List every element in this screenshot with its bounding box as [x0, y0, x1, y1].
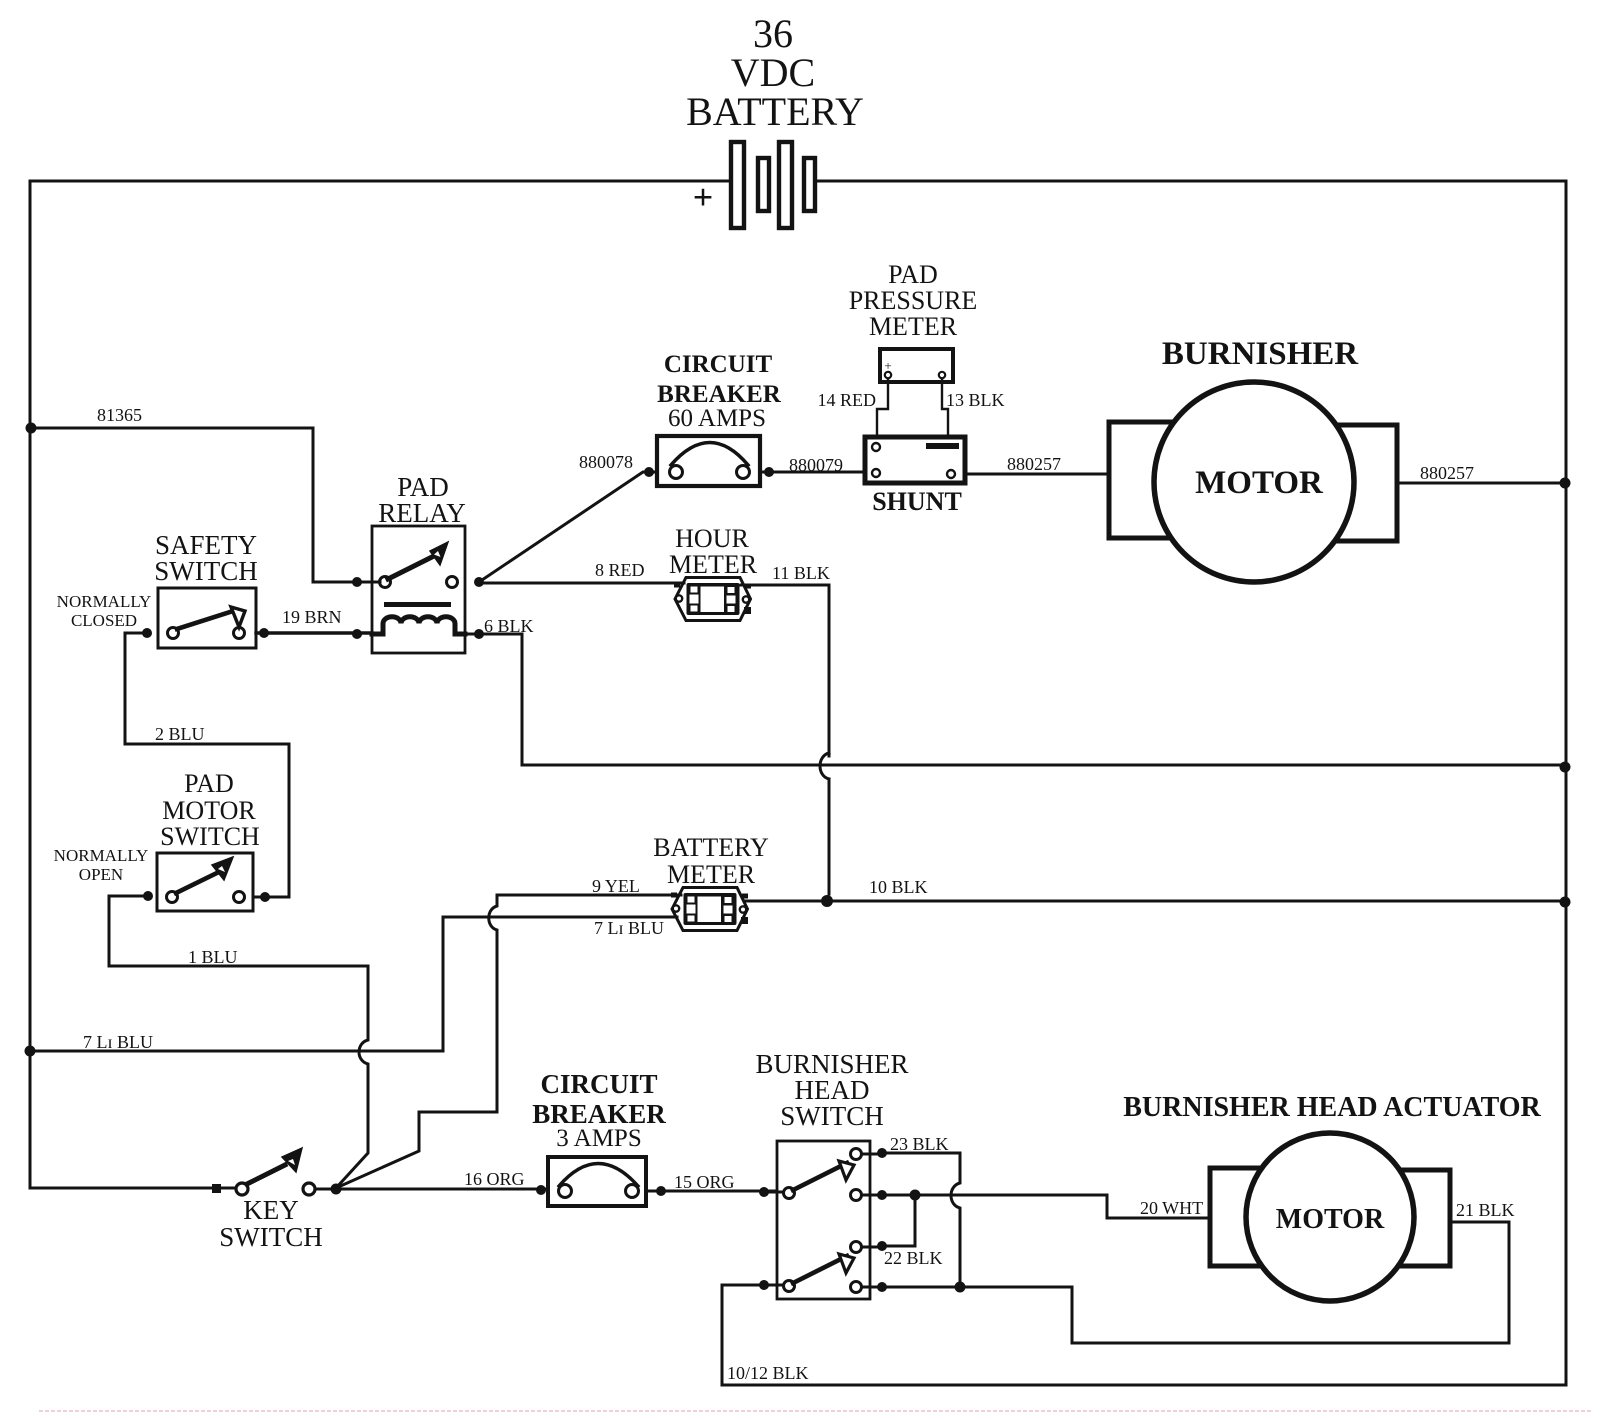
label SAFETY SWITCH — [154, 530, 258, 586]
wire 8 RED relay to hour meter — [479, 582, 684, 585]
node junction 23 BLK / 21 BLK return — [955, 1282, 966, 1293]
switch S4 burnisher head switch body — [777, 1141, 870, 1299]
motor M2 burnisher motor brush block right — [1305, 425, 1397, 541]
label 1 BLU — [188, 947, 238, 967]
node dot relay contact right — [474, 577, 484, 587]
node dot CB2 right terminal — [656, 1186, 666, 1196]
wire 23 BLK upper contact to lower bus — [882, 1153, 960, 1287]
label KEY SWITCH — [219, 1195, 323, 1252]
label 16 ORG — [464, 1169, 525, 1189]
svg-text:23 BLK: 23 BLK — [890, 1134, 949, 1154]
label 19 BRN — [282, 607, 342, 627]
wire 9 YEL battery meter to key switch node — [336, 895, 681, 1188]
wire 880257 shunt to burnisher motor — [965, 473, 1109, 476]
label 9 YEL — [592, 876, 640, 896]
label NORMALLY CLOSED — [57, 592, 152, 630]
node dot head switch right pin 23 — [862, 1148, 887, 1158]
svg-text:8 RED: 8 RED — [595, 560, 645, 580]
node dot CB1 right terminal — [764, 467, 774, 477]
meter M4 battery meter body (hex connector) — [671, 888, 748, 931]
svg-text:SWITCH: SWITCH — [160, 822, 260, 851]
node junction right bus / motor 880257 — [1560, 478, 1571, 489]
svg-text:CIRCUIT: CIRCUIT — [540, 1069, 657, 1099]
wire 16 ORG key switch to CB2 — [336, 1188, 548, 1191]
motor M5 actuator motor armature circle — [1246, 1133, 1414, 1301]
circuit breaker CB1 60A body — [657, 436, 760, 486]
battery BT1 plate 3 (long) — [779, 142, 792, 228]
battery BT1 plate 2 (short) — [758, 158, 769, 211]
svg-text:9 YEL: 9 YEL — [592, 876, 640, 896]
svg-text:7 Lɪ BLU: 7 Lɪ BLU — [83, 1032, 153, 1052]
label 11 BLK — [772, 563, 830, 583]
label BATTERY METER — [653, 833, 769, 889]
wire 7 Lt BLU battery meter branch — [443, 917, 677, 1051]
svg-text:MOTOR: MOTOR — [1195, 465, 1324, 501]
node junction left bus / 81365 — [26, 423, 37, 434]
switch S4 terminals — [784, 1149, 862, 1293]
svg-text:16 ORG: 16 ORG — [464, 1169, 525, 1189]
label 880079 — [789, 455, 843, 475]
wire 15 ORG CB2 to burnisher head switch — [646, 1190, 777, 1193]
wire 20 WHT head switch to actuator motor — [882, 1195, 1210, 1218]
wire 7 Lt BLU long run to left bus — [30, 1050, 443, 1053]
switch S1 safety switch body — [158, 588, 256, 648]
motor M2 burnisher motor brush block left — [1109, 422, 1205, 538]
relay K1 contact blade with arrow — [388, 542, 448, 579]
wire bottom return to burnisher head switch — [722, 1287, 1566, 1385]
wire 880078 relay to CB1 (diagonal) — [479, 472, 657, 582]
node junction left bus / 7 Lt BLU — [25, 1046, 36, 1057]
switch S3 key switch blade with arrow — [247, 1148, 302, 1184]
label 13 BLK — [946, 390, 1005, 410]
label 10/12 BLK — [727, 1363, 809, 1383]
wire 81365 left bus to pad relay — [30, 428, 380, 582]
svg-text:NORMALLY: NORMALLY — [54, 846, 149, 865]
svg-text:19 BRN: 19 BRN — [282, 607, 342, 627]
svg-text:METER: METER — [669, 550, 758, 579]
node dot relay contact left — [352, 577, 362, 587]
label 22 BLK — [884, 1248, 943, 1268]
node dot pad motor switch right — [260, 892, 270, 902]
battery BT1 plate 4 (short) — [804, 158, 815, 211]
wire left border (positive bus) — [29, 181, 32, 1188]
svg-text:MOTOR: MOTOR — [1276, 1204, 1385, 1235]
decorative scan artifact line (skip) — [40, 1410, 1590, 1412]
svg-text:KEY: KEY — [243, 1195, 299, 1225]
label 880257 left — [1007, 454, 1061, 474]
wire right border (negative bus) — [1565, 181, 1568, 1385]
svg-text:BURNISHER: BURNISHER — [1162, 336, 1359, 372]
svg-text:CLOSED: CLOSED — [71, 611, 137, 630]
wire lower contact to 23 BLK junction — [882, 1286, 960, 1289]
label 7 Lt BLU upper — [594, 918, 664, 938]
label 8 RED — [595, 560, 645, 580]
svg-text:PAD: PAD — [184, 769, 234, 798]
svg-text:2 BLU: 2 BLU — [155, 724, 205, 744]
svg-text:PRESSURE: PRESSURE — [849, 286, 978, 315]
svg-text:3 AMPS: 3 AMPS — [556, 1125, 641, 1152]
switch S3 key switch left stub — [212, 1184, 236, 1193]
svg-text:NORMALLY: NORMALLY — [57, 592, 152, 611]
svg-text:SHUNT: SHUNT — [872, 487, 962, 516]
label 23 BLK — [890, 1134, 949, 1154]
node dot safety switch right — [259, 628, 269, 638]
switch S2 blade with arrow (normally open) — [176, 857, 233, 893]
svg-text:SWITCH: SWITCH — [154, 556, 258, 586]
svg-text:BATTERY: BATTERY — [686, 89, 864, 134]
circuit breaker CB2 3A body — [548, 1157, 646, 1206]
label 2 BLU — [155, 724, 205, 744]
wire 21 BLK return to actuator motor — [960, 1222, 1509, 1343]
node dot head switch right pin 22 — [862, 1241, 887, 1251]
label 21 BLK — [1456, 1200, 1515, 1220]
svg-text:10/12 BLK: 10/12 BLK — [727, 1363, 809, 1383]
svg-text:22 BLK: 22 BLK — [884, 1248, 943, 1268]
svg-text:+: + — [693, 177, 714, 217]
wire 6 BLK relay coil to right bus — [465, 634, 1566, 765]
label HOUR METER — [669, 524, 758, 579]
motor M2 burnisher motor armature circle — [1154, 382, 1354, 582]
wire 2 BLU safety switch to pad motor switch — [125, 633, 289, 897]
svg-text:METER: METER — [667, 860, 756, 889]
svg-text:11 BLK: 11 BLK — [772, 563, 830, 583]
label 7 Lt BLU lower — [83, 1032, 153, 1052]
wire 880079 CB1 to shunt — [760, 471, 865, 474]
node dot head switch left lower — [759, 1280, 783, 1290]
wire 14 RED meter to shunt — [877, 379, 888, 437]
svg-text:OPEN: OPEN — [79, 865, 123, 884]
svg-text:880257: 880257 — [1420, 463, 1474, 483]
switch S1 blade with arrow (normally closed) — [177, 607, 245, 629]
node dot head switch left upper — [759, 1187, 783, 1197]
shunt R1 body — [865, 437, 965, 483]
label CIRCUIT BREAKER 3 AMPS — [532, 1069, 666, 1152]
node dot relay coil right — [474, 629, 484, 639]
label 20 WHT — [1140, 1198, 1203, 1218]
wire battery positive to left border (top wire left) — [30, 180, 731, 183]
wire 880257 motor to right bus — [1397, 482, 1566, 485]
node junction right bus / 10 BLK wire — [1560, 897, 1571, 908]
svg-text:BATTERY: BATTERY — [653, 833, 769, 862]
switch S2 terminals — [167, 892, 245, 903]
svg-text:20 WHT: 20 WHT — [1140, 1198, 1203, 1218]
svg-text:HOUR: HOUR — [675, 524, 749, 553]
svg-text:10 BLK: 10 BLK — [869, 877, 928, 897]
switch S4 lower blade with arrow — [793, 1254, 854, 1283]
svg-text:PAD: PAD — [888, 260, 938, 289]
wire 1 BLU pad motor switch to key switch node — [109, 896, 368, 1188]
node junction right bus / 6 BLK wire — [1560, 762, 1571, 773]
wire hop 11 BLK over 6 BLK — [820, 753, 829, 894]
svg-text:880079: 880079 — [789, 455, 843, 475]
label BURNISHER HEAD SWITCH — [755, 1049, 908, 1131]
relay K1 pad relay body — [372, 526, 465, 653]
node dot safety switch left — [142, 628, 152, 638]
node dot pad motor switch left — [143, 891, 153, 901]
svg-text:BURNISHER HEAD ACTUATOR: BURNISHER HEAD ACTUATOR — [1123, 1092, 1541, 1123]
svg-text:CIRCUIT: CIRCUIT — [664, 351, 773, 378]
relay K1 contact terminals — [380, 577, 458, 588]
node junction key switch output — [315, 1184, 342, 1195]
relay K1 coil bar — [384, 602, 451, 607]
node dot head switch right pin 20 — [862, 1190, 887, 1200]
svg-text:15 ORG: 15 ORG — [674, 1172, 735, 1192]
svg-text:7 Lɪ BLU: 7 Lɪ BLU — [594, 918, 664, 938]
switch S2 pad motor switch body — [157, 853, 253, 911]
battery plus sign — [693, 177, 714, 217]
label 15 ORG — [674, 1172, 735, 1192]
svg-text:SWITCH: SWITCH — [219, 1222, 323, 1252]
node dot CB1 left terminal — [644, 467, 654, 477]
svg-text:880078: 880078 — [579, 452, 633, 472]
label PAD RELAY — [378, 472, 466, 528]
svg-text:60 AMPS: 60 AMPS — [668, 405, 766, 432]
meter M3 hour meter body (hex connector) — [674, 578, 751, 621]
svg-text:+: + — [884, 358, 891, 373]
battery BT1 plate 1 (long) — [731, 142, 744, 228]
svg-text:BREAKER: BREAKER — [657, 381, 782, 408]
svg-text:1 BLU: 1 BLU — [188, 947, 238, 967]
svg-text:14 RED: 14 RED — [818, 390, 877, 410]
switch S3 key switch terminals — [236, 1183, 315, 1195]
wire 10 BLK battery meter to right bus — [744, 900, 1566, 903]
wire battery negative to right border (top wire right) — [815, 180, 1566, 183]
motor M5 actuator motor brush block left — [1210, 1168, 1290, 1266]
wire 13 BLK meter to shunt — [942, 379, 948, 437]
svg-text:21 BLK: 21 BLK — [1456, 1200, 1515, 1220]
svg-text:RELAY: RELAY — [378, 498, 466, 528]
label 81365 — [97, 405, 142, 425]
label 880078 — [579, 452, 633, 472]
node dot CB2 left terminal — [536, 1185, 546, 1195]
wire 10/12 BLK head switch to bottom return — [722, 1285, 764, 1385]
svg-text:13 BLK: 13 BLK — [946, 390, 1005, 410]
meter M1 pad pressure meter body — [880, 349, 953, 382]
node junction 20 WHT / 22 BLK jumper — [910, 1190, 921, 1201]
label 10 BLK — [869, 877, 928, 897]
label CIRCUIT BREAKER 60 AMPS — [657, 351, 782, 432]
svg-text:6 BLK: 6 BLK — [484, 616, 534, 636]
switch S1 terminals — [168, 628, 245, 639]
wire 22 BLK jumper — [882, 1195, 915, 1246]
battery 36 VDC label — [686, 11, 864, 134]
label PAD MOTOR SWITCH — [160, 769, 260, 851]
label NORMALLY OPEN — [54, 846, 149, 884]
node dot head switch right pin lower — [862, 1282, 887, 1292]
motor M5 actuator motor brush block right — [1370, 1170, 1450, 1266]
wire 11 BLK hour meter to down bus — [741, 585, 829, 756]
node dot relay coil left — [352, 629, 362, 639]
label PAD PRESSURE METER — [849, 260, 978, 341]
svg-text:880257: 880257 — [1007, 454, 1061, 474]
switch S4 upper blade with arrow — [793, 1161, 854, 1190]
label BURNISHER HEAD ACTUATOR — [1123, 1092, 1541, 1123]
wire 19 BRN safety switch to relay coil — [256, 631, 372, 634]
node junction 10 BLK / hour meter bus — [821, 895, 833, 907]
svg-text:METER: METER — [869, 312, 958, 341]
svg-text:SWITCH: SWITCH — [780, 1101, 884, 1131]
label SHUNT — [872, 487, 962, 516]
wire left bus to key switch — [30, 1187, 216, 1190]
label BURNISHER — [1162, 336, 1359, 372]
svg-text:81365: 81365 — [97, 405, 142, 425]
label 880257 right — [1420, 463, 1474, 483]
relay K1 coil — [372, 617, 465, 634]
label 6 BLK — [484, 616, 534, 636]
svg-text:MOTOR: MOTOR — [162, 796, 256, 825]
label 14 RED — [818, 390, 877, 410]
